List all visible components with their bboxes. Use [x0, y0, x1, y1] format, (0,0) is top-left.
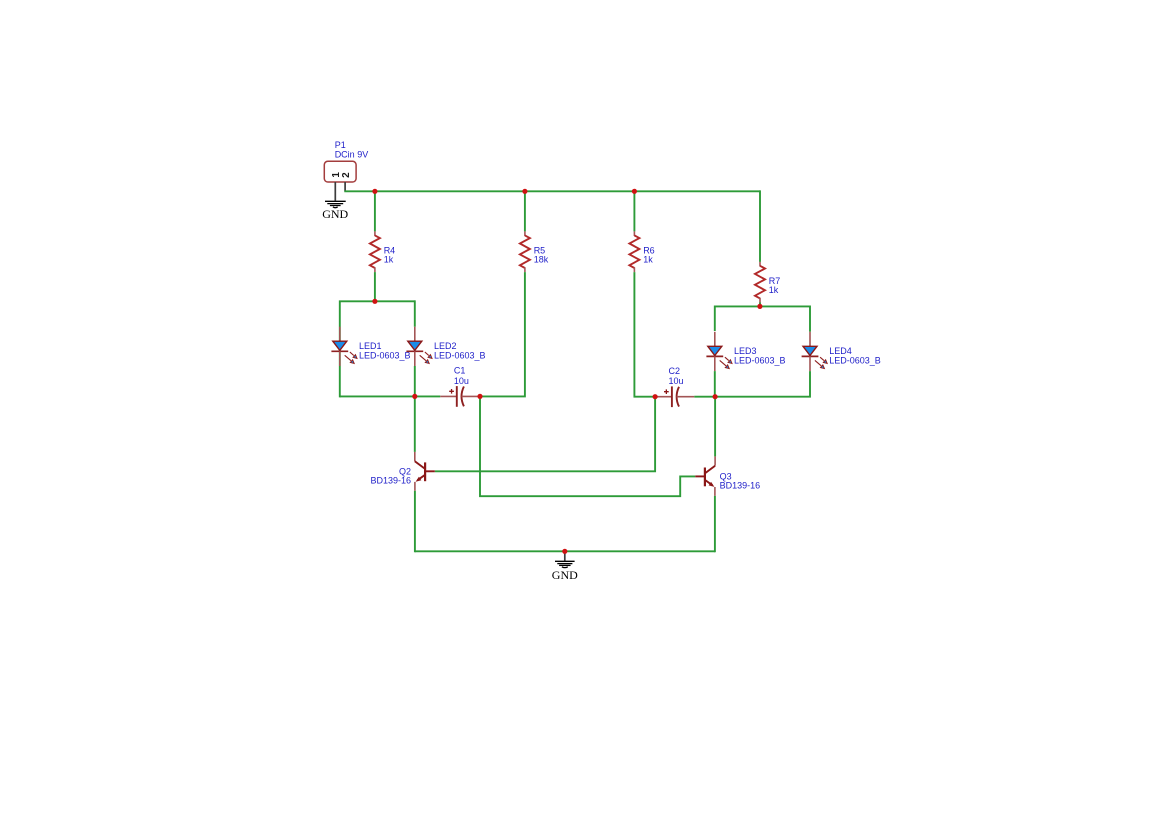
svg-text:GND: GND: [322, 207, 348, 221]
junction: node at C2 right / LED3 / Q3 collector: [713, 394, 718, 399]
wire: mid rail from LED1 to C1: [340, 395, 441, 397]
svg-text:DCin 9V: DCin 9V: [335, 149, 369, 159]
svg-text:2: 2: [341, 172, 352, 178]
wire: Q3 collector lead from LED3 node: [714, 397, 716, 457]
junction: R4 bottom at LED rail: [372, 299, 377, 304]
junction: bus at R4: [372, 189, 377, 194]
LED LED3: [706, 332, 732, 371]
wire: Q2 base wire to C2 left node: [435, 397, 655, 472]
svg-text:LED-0603_B: LED-0603_B: [434, 350, 486, 360]
svg-text:10u: 10u: [454, 376, 469, 386]
svg-text:1k: 1k: [384, 255, 394, 265]
wire: R6 bottom lead down to C2 left node: [634, 272, 655, 397]
svg-text:18k: 18k: [534, 255, 549, 265]
capacitor C2: [655, 386, 694, 407]
wire: bus corner down to R7: [759, 190, 761, 262]
wire: LED2 bottom lead: [414, 366, 416, 396]
junction: ground rail at GND symbol: [562, 549, 567, 554]
wire: LED3/LED4 top rail: [715, 306, 810, 331]
svg-text:LED-0603_B: LED-0603_B: [734, 356, 786, 366]
junction: bus at R6: [632, 189, 637, 194]
wire: C2 right lead to LED3 node: [694, 396, 715, 398]
transistor Q3: [695, 456, 715, 496]
junction: node at LED2 bottom / C1 left / Q2 collector: [412, 394, 417, 399]
svg-text:GND: GND: [552, 568, 578, 582]
wire: bottom ground rail: [415, 550, 715, 552]
resistor R6: [629, 231, 639, 272]
svg-text:LED-0603_B: LED-0603_B: [359, 350, 411, 360]
svg-text:LED-0603_B: LED-0603_B: [829, 356, 881, 366]
resistor R4: [370, 231, 380, 272]
wire: R4 bottom lead: [374, 272, 376, 301]
LED LED2: [406, 327, 432, 366]
junction: node at C1 right / R5 / Q3 base link: [477, 394, 482, 399]
P1 pin 1 lead: [334, 182, 336, 201]
junction: node at C2 left / R6 / Q2 base link: [653, 394, 658, 399]
ground symbol at bottom rail: [555, 551, 575, 567]
wire: R5 top lead: [524, 191, 526, 231]
junction: R7 bottom at LED rail: [757, 304, 762, 309]
wire: top power bus: [344, 190, 760, 192]
wire: Q3 emitter down to ground rail: [714, 496, 716, 552]
wire: R4 top lead: [374, 191, 376, 231]
svg-text:C2: C2: [669, 366, 681, 376]
svg-text:C1: C1: [454, 366, 466, 376]
wire: LED1/LED2 top rail: [340, 301, 415, 397]
capacitor C1: [440, 386, 480, 407]
svg-text:1k: 1k: [769, 285, 779, 295]
svg-text:BD139-16: BD139-16: [370, 475, 411, 485]
junction: bus at R5: [522, 189, 527, 194]
wire: LED2 top lead: [414, 300, 416, 326]
wire: mid rail from R6 corner to C2: [655, 396, 658, 398]
wire: LED3 bottom lead: [714, 371, 716, 397]
wire: R5 bottom lead down to mid rail: [480, 272, 525, 396]
wire: cross-coupling from C1 right node down and right to Q3 base: [480, 396, 695, 496]
resistor R5: [520, 231, 530, 272]
wire: R6 top lead: [633, 191, 635, 231]
wire: LED4 bottom lead and rail to LED3 node: [715, 371, 810, 397]
resistor R7: [755, 262, 765, 303]
wire: Q2 emitter down to ground rail: [414, 491, 416, 552]
svg-text:10u: 10u: [669, 376, 684, 386]
LED LED1: [331, 327, 357, 366]
wire: Q2 collector lead from mid rail: [414, 396, 416, 452]
svg-text:BD139-16: BD139-16: [720, 481, 761, 491]
P1 pin 2 lead: [344, 182, 346, 191]
ground symbol under P1: [325, 201, 346, 207]
transistor Q2: [415, 452, 435, 491]
svg-text:1k: 1k: [643, 255, 653, 265]
LED LED4: [802, 332, 828, 371]
connector P1 body: [324, 161, 356, 182]
wire: R7 bottom lead: [759, 303, 761, 307]
